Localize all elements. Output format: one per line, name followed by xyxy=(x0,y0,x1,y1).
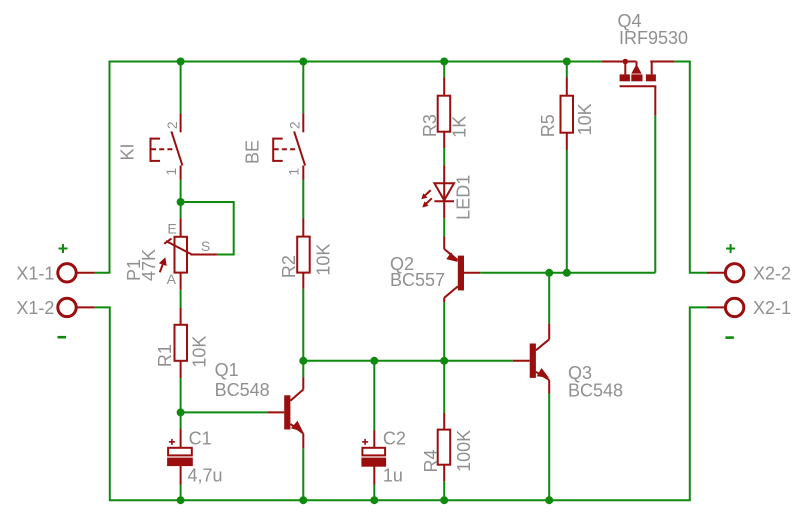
junction top rail R3 xyxy=(440,58,448,66)
wire mid node row to Q3 base xyxy=(303,360,513,362)
svg-text:2: 2 xyxy=(287,121,303,129)
svg-text:C1: C1 xyxy=(189,429,212,449)
svg-text:LED1: LED1 xyxy=(454,175,474,220)
wire Q4 gate vertical xyxy=(654,116,656,273)
junction KI / P1 loop xyxy=(177,198,185,206)
wire BE column from top rail xyxy=(302,62,304,114)
wire R3 to LED1 xyxy=(443,148,445,165)
svg-text:10K: 10K xyxy=(575,103,595,135)
svg-text:4,7u: 4,7u xyxy=(188,465,223,485)
resistor R2 xyxy=(297,219,310,289)
svg-text:R1: R1 xyxy=(155,344,175,367)
node plus mark right xyxy=(726,244,735,253)
svg-text:R2: R2 xyxy=(279,255,299,278)
svg-text:BC557: BC557 xyxy=(390,270,445,290)
capacitor C1 xyxy=(168,429,192,485)
svg-text:X2-1: X2-1 xyxy=(753,298,791,318)
connector X2-1 pin wire xyxy=(707,306,725,308)
wire node to R4 xyxy=(443,361,445,413)
resistor R1 xyxy=(175,308,188,378)
potentiometer P1 xyxy=(160,218,217,290)
switch BE xyxy=(273,113,305,179)
wire R3 top xyxy=(443,62,445,78)
junction gate net Q3 xyxy=(545,269,553,277)
svg-text:R4: R4 xyxy=(421,449,441,472)
svg-text:1: 1 xyxy=(163,168,179,176)
svg-text:47K: 47K xyxy=(139,249,159,281)
svg-text:BC548: BC548 xyxy=(215,380,270,400)
P1 adjust arrow head xyxy=(159,257,167,266)
LED1 emission arrow heads xyxy=(421,193,427,199)
wire Q1 emitter to bottom rail xyxy=(302,448,304,500)
svg-text:S: S xyxy=(201,238,210,254)
svg-text:X2-2: X2-2 xyxy=(753,263,791,283)
wire KI column from top rail xyxy=(180,62,182,114)
Q3 emitter arrow xyxy=(537,368,549,378)
resistor R4 xyxy=(438,413,451,481)
junction mid row C2 xyxy=(370,357,378,365)
wire bottom rail + left lower vertical from X1-2 + right lower vertical to X2-1 xyxy=(95,307,707,500)
svg-text:10K: 10K xyxy=(313,244,333,276)
connector X1-1 xyxy=(58,264,76,282)
wire R1 to C1 xyxy=(180,378,182,429)
Q1 emitter arrow xyxy=(291,421,303,432)
junction R1/C1 base node xyxy=(177,408,185,416)
wire node to Q1 base xyxy=(181,411,268,413)
wire R5 top xyxy=(566,62,568,78)
wire top rail + left upper vertical to X1-1 xyxy=(95,62,602,273)
junction bottom rail Q3 xyxy=(545,496,553,504)
junction top rail KI xyxy=(177,58,185,66)
wire Q2 collector to mid node xyxy=(443,302,445,361)
capacitor C2 xyxy=(362,431,385,485)
resistor R5 xyxy=(561,78,574,151)
svg-text:X1-2: X1-2 xyxy=(16,298,54,318)
svg-text:Q1: Q1 xyxy=(215,360,239,380)
svg-text:1: 1 xyxy=(286,168,302,176)
wire R4 to bottom rail xyxy=(443,481,445,500)
wire node to C2 xyxy=(373,361,375,431)
node plus mark left xyxy=(59,244,68,253)
junction bottom rail C2 xyxy=(370,496,378,504)
Q4 bulk arrow xyxy=(631,64,641,74)
connector X2-2 pin wire xyxy=(707,272,725,274)
svg-text:A: A xyxy=(167,271,177,287)
node minus mark right xyxy=(725,336,734,339)
junction mid row R4 xyxy=(440,357,448,365)
resistor R3 xyxy=(438,78,451,149)
svg-text:KI: KI xyxy=(118,143,138,160)
transistor Q3 xyxy=(513,324,549,394)
svg-text:2: 2 xyxy=(164,121,180,129)
wire Q2 base to Q4 gate net xyxy=(480,272,655,274)
svg-text:R5: R5 xyxy=(538,114,558,137)
svg-text:R3: R3 xyxy=(420,114,440,137)
connector X1-2 pin wire xyxy=(76,306,94,308)
LED LED1 xyxy=(424,165,455,218)
junction bottom rail Q1 xyxy=(299,496,307,504)
wire P1 to R1 xyxy=(180,290,182,308)
svg-text:X1-1: X1-1 xyxy=(16,263,54,283)
connector X1-2 xyxy=(58,298,76,316)
svg-text:1K: 1K xyxy=(450,116,470,138)
wire KI pin1 to P1 xyxy=(180,180,182,218)
switch KI xyxy=(151,113,183,179)
svg-text:BE: BE xyxy=(243,140,263,164)
svg-text:C2: C2 xyxy=(383,429,406,449)
transistor Q1 xyxy=(267,378,303,449)
Q4 source pin dot xyxy=(623,59,629,65)
wire C2 to bottom rail xyxy=(373,485,375,501)
wire Q3 emitter to bottom rail xyxy=(548,394,550,501)
transistor Q2 xyxy=(444,236,480,302)
connector X1-1 pin wire xyxy=(76,272,94,274)
svg-text:BC548: BC548 xyxy=(568,381,623,401)
connector X2-2 xyxy=(725,264,743,282)
junction gate net R5 xyxy=(563,269,571,277)
junction mid row R2/Q1 xyxy=(299,357,307,365)
connector X2-1 xyxy=(725,298,743,316)
svg-text:10K: 10K xyxy=(189,336,209,368)
junction bottom rail C1 xyxy=(177,496,185,504)
wire Q3 collector up xyxy=(548,273,550,324)
svg-text:1u: 1u xyxy=(383,465,403,485)
wire top-right from Q4 drain down to X2-2 xyxy=(674,62,707,273)
wire R5 bottom to gate net xyxy=(566,150,568,273)
wire C1 to bottom rail xyxy=(180,485,182,501)
wire R2 to Q1 collector xyxy=(302,289,304,378)
wire LED1 to Q2 emitter xyxy=(443,218,445,236)
node minus mark left xyxy=(58,336,67,339)
wire BE pin1 to R2 xyxy=(302,180,304,219)
Q2 emitter arrow xyxy=(446,252,457,262)
svg-text:IRF9530: IRF9530 xyxy=(619,28,688,48)
junction top rail R5 xyxy=(563,58,571,66)
wire loop KI node to P1 wiper S xyxy=(181,202,234,255)
svg-text:100K: 100K xyxy=(454,430,474,472)
junction top rail BE xyxy=(299,58,307,66)
svg-text:E: E xyxy=(167,221,176,237)
mosfet Q4 xyxy=(602,62,675,116)
junction bottom rail R4 xyxy=(440,496,448,504)
